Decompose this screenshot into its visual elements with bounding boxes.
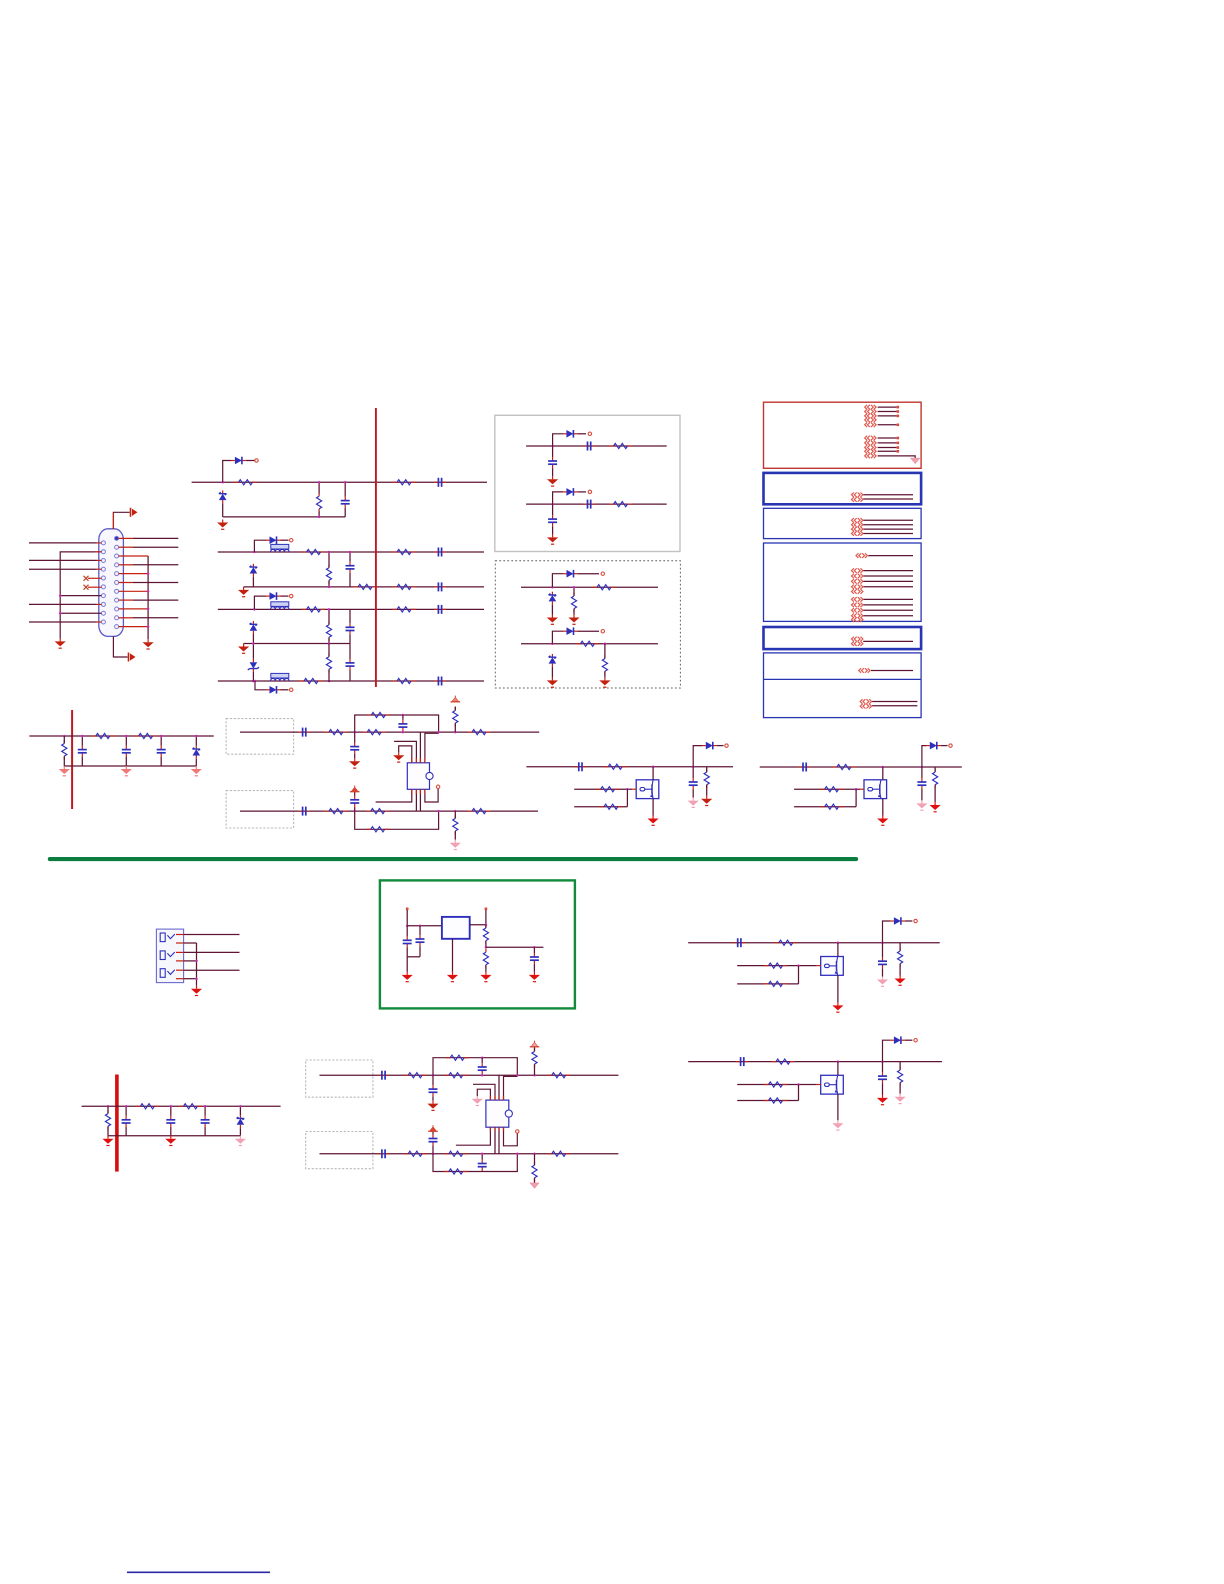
wire lead bbox=[170, 1106, 172, 1116]
wire vin bbox=[406, 910, 408, 926]
pin end bbox=[897, 415, 900, 418]
power flag bbox=[350, 786, 360, 792]
capacitor C2 bbox=[434, 478, 446, 487]
wire R11 top lead bbox=[328, 644, 330, 657]
wire J1 pin bbox=[29, 542, 97, 544]
wire jack switch pin bbox=[176, 942, 184, 944]
ground bbox=[238, 644, 249, 654]
wire base bbox=[737, 965, 817, 967]
wire lead bbox=[454, 831, 456, 840]
resistor bbox=[324, 730, 347, 735]
capacitor bbox=[733, 938, 745, 947]
wire zener lead bbox=[551, 605, 553, 615]
wire lead bbox=[107, 1106, 109, 1113]
junction bbox=[454, 731, 457, 734]
wire base bbox=[574, 788, 632, 790]
port wire bbox=[863, 528, 913, 530]
wire lead bbox=[419, 926, 421, 935]
wire net out4 bbox=[688, 1061, 942, 1063]
wire R5 bottom lead bbox=[328, 581, 330, 587]
junction bbox=[485, 946, 488, 949]
resistor bbox=[764, 963, 787, 968]
ground bbox=[930, 802, 941, 812]
ferrite bead FB2 bbox=[271, 602, 289, 610]
junction bbox=[59, 612, 62, 615]
junction bbox=[328, 642, 331, 645]
wire net out3 bbox=[688, 942, 940, 944]
wire net row2 bbox=[218, 551, 484, 553]
regulator U2 body bbox=[442, 917, 470, 939]
wire diode tail bbox=[246, 460, 255, 462]
junction bbox=[125, 1105, 128, 1108]
resistor bbox=[547, 1151, 570, 1156]
junction bbox=[318, 516, 321, 519]
port symbol bbox=[859, 668, 870, 673]
capacitor bbox=[429, 1085, 438, 1096]
wire lead bbox=[481, 1170, 483, 1173]
wire cap join bbox=[407, 956, 420, 958]
junction bbox=[254, 680, 257, 683]
port symbols bbox=[852, 637, 863, 646]
open pin bbox=[516, 1130, 519, 1133]
wire lead bbox=[125, 736, 127, 746]
port wire bbox=[871, 670, 913, 672]
wire base 2 bbox=[737, 983, 798, 985]
junction bbox=[692, 766, 695, 769]
wire stub red bbox=[88, 577, 101, 579]
ground bbox=[701, 796, 712, 806]
wire stub red bbox=[119, 608, 149, 610]
resistor bbox=[179, 1104, 202, 1109]
resistor R8 bbox=[393, 584, 416, 589]
IC U1 pin 2 bbox=[394, 741, 416, 762]
diode D3 bbox=[266, 536, 281, 544]
transistor Q2 bbox=[864, 780, 887, 799]
connector J2 body bbox=[156, 929, 183, 983]
junction bbox=[437, 810, 440, 813]
port wire bbox=[863, 604, 913, 606]
resistor R10 bbox=[326, 621, 331, 641]
port wire bbox=[863, 640, 913, 642]
wire to diode bbox=[922, 746, 926, 767]
capacitor bbox=[736, 1057, 748, 1066]
ground bbox=[877, 1095, 888, 1105]
resistor bbox=[91, 733, 114, 738]
wire lead bbox=[204, 1127, 206, 1136]
resistor bbox=[134, 733, 157, 738]
wire net subB bbox=[526, 503, 667, 505]
junction bbox=[406, 924, 409, 927]
wire jack switch pin bbox=[176, 978, 184, 980]
wire lead bbox=[63, 756, 65, 766]
resistor bbox=[136, 1104, 159, 1109]
wire net inB bbox=[240, 810, 538, 812]
wire stub red bbox=[95, 551, 101, 553]
wire J1 right bus bbox=[147, 556, 149, 639]
wire lead bbox=[899, 1083, 901, 1094]
resistor bbox=[933, 769, 938, 789]
diode D8 bbox=[266, 686, 281, 694]
IC U3 pin 2 bbox=[473, 1084, 495, 1100]
ground bbox=[349, 758, 360, 768]
capacitor C1 bbox=[341, 497, 350, 508]
no-connect X bbox=[84, 576, 89, 581]
wire lead bbox=[454, 723, 456, 732]
wire diode tail bbox=[578, 630, 600, 632]
IC U1 pin 5 bbox=[376, 789, 412, 802]
resistor R12 bbox=[393, 607, 416, 612]
port wire bbox=[863, 615, 913, 617]
wire net inC bbox=[320, 1074, 619, 1076]
port symbols bbox=[865, 436, 876, 458]
port wire bbox=[863, 494, 913, 496]
diode bbox=[702, 742, 717, 750]
resistor R13 bbox=[300, 678, 323, 683]
resistor bbox=[532, 1048, 537, 1068]
wire diode tail bbox=[717, 745, 724, 747]
hierarchical block divider bbox=[764, 678, 922, 680]
open pin bbox=[601, 572, 604, 575]
diode bbox=[890, 917, 905, 925]
wire lead bbox=[692, 767, 694, 778]
resistor bbox=[453, 707, 458, 727]
ground bbox=[832, 1002, 843, 1012]
wire R5 top lead bbox=[328, 552, 330, 568]
power flag bbox=[530, 1041, 540, 1047]
IC U1 pin 4 bbox=[425, 733, 439, 763]
resistor bbox=[609, 502, 632, 507]
wire stub red bbox=[860, 788, 864, 790]
wire J1 pin from bus bbox=[60, 612, 101, 614]
wire base link bbox=[798, 966, 800, 984]
wire to diode bbox=[223, 461, 231, 483]
resistor bbox=[609, 443, 632, 448]
wire C3 top lead bbox=[349, 552, 351, 562]
wire net row3b bbox=[244, 643, 350, 645]
ground bbox=[916, 800, 927, 810]
IC U1 pin 6 bbox=[415, 789, 417, 811]
ground bbox=[427, 1101, 438, 1111]
resistor bbox=[764, 1098, 787, 1103]
wire J1 pin bbox=[29, 621, 97, 623]
capacitor bbox=[583, 500, 595, 509]
capacitor bbox=[574, 762, 586, 771]
ground bbox=[568, 615, 579, 625]
wire net subA bbox=[526, 445, 667, 447]
zener diode bbox=[549, 654, 557, 667]
capacitor bbox=[689, 778, 698, 789]
IC U3 pin 3 bbox=[498, 1075, 500, 1100]
input block box bbox=[306, 1132, 373, 1169]
wire base 2 bbox=[574, 806, 627, 808]
ground bbox=[648, 816, 659, 826]
ground bbox=[217, 520, 228, 530]
resistor bbox=[444, 1073, 467, 1078]
capacitor C5 bbox=[434, 582, 446, 591]
ground bbox=[402, 972, 413, 982]
junction bbox=[147, 625, 150, 628]
ground bbox=[480, 972, 491, 982]
ground bbox=[165, 1136, 176, 1146]
ground bbox=[832, 1120, 843, 1130]
wire cap lead bbox=[552, 526, 554, 534]
resistor bbox=[604, 764, 627, 769]
wire net row2b bbox=[244, 586, 484, 588]
wire lead bbox=[485, 925, 487, 928]
junction bbox=[481, 1074, 484, 1077]
IC U1 pin 7 bbox=[419, 789, 421, 811]
port wire bbox=[868, 555, 913, 557]
wire J1 pin bbox=[119, 546, 133, 548]
resistor bbox=[532, 1162, 537, 1182]
wire base link bbox=[798, 1085, 800, 1101]
wire to diode bbox=[553, 492, 563, 504]
open pin bbox=[436, 785, 439, 788]
wire R2 bottom lead bbox=[318, 512, 320, 517]
capacitor C3 bbox=[346, 562, 355, 573]
resistor bbox=[599, 804, 622, 809]
wire C1 top lead bbox=[344, 482, 346, 496]
section divider line bbox=[48, 857, 858, 861]
IC U1 pin 1 bbox=[399, 746, 412, 763]
ground bbox=[547, 615, 558, 625]
wire base link bbox=[855, 789, 857, 807]
junction bbox=[147, 572, 150, 575]
capacitor C4 bbox=[434, 548, 446, 557]
wire ground rail bbox=[64, 765, 196, 767]
wire C7 bottom lead bbox=[349, 670, 351, 681]
junction bbox=[204, 1105, 207, 1108]
wire diode tail bbox=[905, 920, 913, 922]
wire lead bbox=[573, 587, 575, 596]
wire lead bbox=[533, 964, 535, 972]
resistor bbox=[404, 1151, 427, 1156]
wire diode tail bbox=[905, 1039, 913, 1041]
capacitor bbox=[378, 1149, 390, 1158]
port wire bbox=[878, 411, 897, 413]
junction bbox=[652, 766, 655, 769]
wire net row1 cont bbox=[376, 481, 487, 483]
wire R2 top lead bbox=[318, 482, 320, 493]
wire lead bbox=[882, 943, 884, 958]
resistor bbox=[324, 809, 347, 814]
wire to zener D7 bbox=[252, 644, 254, 659]
wire to ground bbox=[406, 957, 408, 972]
wire lead bbox=[485, 941, 487, 947]
capacitor bbox=[799, 763, 811, 772]
diode bbox=[562, 488, 577, 496]
capacitor bbox=[398, 720, 407, 731]
resistor bbox=[363, 730, 386, 735]
wire to diode bbox=[552, 574, 563, 588]
capacitor bbox=[583, 442, 595, 451]
wire lead bbox=[921, 789, 923, 800]
resistor bbox=[62, 740, 67, 760]
junction bbox=[353, 731, 356, 734]
junction bbox=[481, 1056, 484, 1059]
pin end bbox=[897, 450, 900, 453]
resistor bbox=[366, 809, 389, 814]
wire stub red bbox=[817, 1084, 821, 1086]
junction bbox=[797, 964, 800, 967]
junction bbox=[402, 731, 405, 734]
resistor R7 bbox=[393, 549, 416, 554]
wire zener D7 lead bbox=[252, 672, 254, 681]
wire regulator gnd pin bbox=[452, 939, 454, 972]
port wire bbox=[878, 437, 897, 439]
open pin bbox=[914, 1039, 917, 1042]
resistor R11 bbox=[326, 653, 331, 673]
wire lead bbox=[481, 1154, 483, 1160]
jack switch 1 bbox=[160, 933, 175, 942]
wire collector bbox=[652, 767, 654, 780]
zener diode D2 bbox=[219, 490, 227, 503]
resistor R1 bbox=[234, 480, 257, 485]
ground bbox=[877, 977, 888, 987]
pin end bbox=[406, 908, 409, 911]
resistor bbox=[820, 787, 843, 792]
connector J1 pins bbox=[101, 536, 118, 628]
port wire bbox=[863, 570, 913, 572]
capacitor bbox=[350, 743, 359, 754]
wire base bbox=[794, 788, 860, 790]
wire lead bbox=[534, 1048, 536, 1052]
port symbols bbox=[852, 597, 863, 622]
resistor bbox=[764, 1082, 787, 1087]
wire J1 pin bbox=[119, 537, 133, 539]
junction bbox=[419, 924, 422, 927]
ground bbox=[895, 976, 906, 986]
wire C1 bottom lead bbox=[344, 508, 346, 517]
transistor Q1 bbox=[636, 780, 659, 799]
input block box bbox=[226, 719, 294, 755]
wire emitter bbox=[652, 799, 654, 816]
ground bbox=[472, 1096, 483, 1105]
wire collector bbox=[837, 943, 839, 957]
capacitor bbox=[166, 1116, 175, 1127]
input block box bbox=[226, 791, 294, 828]
junction bbox=[881, 941, 884, 944]
wire stub red bbox=[632, 788, 636, 790]
ground bbox=[447, 972, 458, 982]
wire lead bbox=[706, 785, 708, 796]
port symbols bbox=[852, 493, 863, 502]
wire stub red bbox=[119, 555, 149, 557]
wire J1 pin bbox=[119, 582, 133, 584]
zener diode bbox=[237, 1115, 245, 1128]
pin end bbox=[897, 437, 900, 440]
resistor bbox=[704, 769, 709, 789]
wire to diode bbox=[883, 1040, 891, 1061]
wire lead bbox=[534, 1064, 536, 1075]
jack switch 2 bbox=[160, 951, 175, 960]
diode bbox=[926, 742, 941, 750]
wire collector bbox=[837, 1062, 839, 1076]
open pin bbox=[588, 490, 591, 493]
wire lead bbox=[706, 767, 708, 772]
ground bbox=[688, 798, 699, 808]
resistor R5 bbox=[326, 564, 331, 584]
wire lead bbox=[882, 1062, 884, 1073]
junction bbox=[195, 960, 198, 963]
wire J1 shield top bbox=[113, 512, 129, 529]
port wire bbox=[863, 609, 913, 611]
wire net filter1 bbox=[29, 735, 213, 737]
diode bbox=[563, 627, 578, 635]
junction bbox=[353, 810, 356, 813]
zener diode D6 bbox=[250, 621, 258, 634]
ground bbox=[529, 972, 540, 982]
wire feedback rail bbox=[355, 811, 439, 829]
wire lead bbox=[125, 1106, 127, 1116]
resistor bbox=[446, 1055, 469, 1060]
capacitor bbox=[298, 807, 310, 816]
capacitor bbox=[298, 728, 310, 737]
wire diode tail bbox=[281, 539, 289, 541]
power flag bbox=[451, 696, 461, 702]
open pin of D5 bbox=[290, 594, 293, 597]
resistor R14 bbox=[393, 678, 416, 683]
resistor bbox=[444, 1151, 467, 1156]
junction bbox=[881, 1060, 884, 1063]
ground bbox=[55, 638, 66, 648]
wire net row4 bbox=[218, 680, 484, 682]
connector J1 body (D-sub) bbox=[99, 529, 124, 637]
capacitor bbox=[416, 935, 425, 946]
wire lead bbox=[534, 1178, 536, 1183]
junction bbox=[626, 788, 629, 791]
junction bbox=[328, 608, 331, 611]
junction bbox=[253, 551, 256, 554]
diode bbox=[562, 430, 577, 438]
wire jack switch pin bbox=[176, 960, 184, 962]
filter block box (dashed) bbox=[495, 561, 680, 688]
capacitor bbox=[378, 1071, 390, 1080]
hierarchical block bbox=[764, 627, 922, 649]
junction bbox=[318, 481, 321, 484]
wire lead bbox=[195, 736, 197, 746]
resistor R2 bbox=[317, 493, 322, 513]
IC U3 pin 5 bbox=[456, 1127, 491, 1145]
ground bbox=[547, 534, 558, 544]
port wire bbox=[872, 701, 917, 703]
wire to diode bbox=[254, 540, 266, 552]
capacitor bbox=[548, 515, 557, 526]
wire lead bbox=[882, 1083, 884, 1095]
junction bbox=[481, 1153, 484, 1156]
wire feedback rail bbox=[433, 1154, 517, 1172]
wire lead bbox=[160, 757, 162, 766]
capacitor bbox=[157, 746, 166, 757]
wire feedback rail bbox=[355, 715, 439, 732]
open pin of D8 bbox=[290, 688, 293, 691]
wire lead bbox=[432, 1146, 434, 1154]
port wire bbox=[878, 424, 897, 426]
wire C7 top lead bbox=[349, 644, 351, 660]
wire net row1 bbox=[192, 481, 376, 483]
junction bbox=[921, 766, 924, 769]
wire stub red bbox=[88, 586, 101, 588]
capacitor C7 bbox=[346, 659, 355, 670]
wire lead bbox=[239, 1106, 241, 1115]
hierarchical block (red) bbox=[764, 402, 922, 468]
IC U1 pin 8 bbox=[425, 789, 438, 803]
junction bbox=[533, 1153, 536, 1156]
IC U3 pin 4 bbox=[504, 1076, 518, 1100]
wire lead bbox=[81, 736, 83, 746]
ground bbox=[143, 639, 154, 649]
wire net out2 bbox=[760, 766, 962, 768]
